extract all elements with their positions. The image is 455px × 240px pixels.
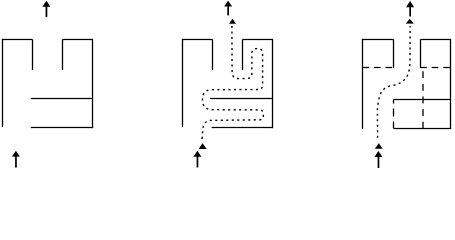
- maze 1 top wall left segment: [2, 39, 33, 41]
- maze 3 left wall: [362, 39, 364, 129]
- maze 2 entry arrow (bottom): [193, 151, 201, 157]
- maze 3 dotted path entry arrowhead: [375, 143, 383, 149]
- maze 1 left wall: [2, 39, 4, 127]
- maze 1 bottom wall: [31, 127, 93, 129]
- maze 3 dashed middle vertical wall: [422, 71, 424, 128]
- maze 1 middle shelf wall: [31, 98, 93, 100]
- maze 3 lower box bottom wall: [394, 128, 452, 130]
- maze 2 dotted path entry arrowhead: [199, 143, 207, 149]
- maze 2 top wall right segment: [243, 39, 273, 41]
- maze 3 top-left box dashed bottom wall: [363, 67, 394, 69]
- maze 1 right wall: [92, 39, 94, 128]
- maze 2 right wall: [272, 39, 274, 128]
- maze 3 top-left box right wall: [393, 40, 395, 68]
- maze 3 lower box top wall: [394, 99, 451, 101]
- maze 1 top wall right segment: [63, 39, 93, 41]
- maze 3 lower box dashed left wall: [393, 100, 395, 129]
- maze 2 exit arrow (top): [224, 1, 232, 7]
- maze 2 inner vertical wall left: [212, 40, 214, 71]
- maze 3 top-right box left wall: [420, 40, 422, 68]
- maze 3 top-right box dashed bottom wall: [420, 67, 450, 69]
- maze 3 exit arrow (top): [406, 1, 414, 7]
- maze 3 right wall: [450, 39, 452, 129]
- maze 2 dotted solution path: [202, 25, 263, 139]
- maze 2 top wall left segment: [182, 39, 213, 41]
- maze 1 exit arrow (top): [42, 1, 50, 7]
- maze 2 left wall: [182, 39, 184, 127]
- maze 2 bottom wall: [212, 127, 274, 129]
- maze 3 dotted path exit arrowhead: [406, 19, 414, 24]
- maze 1 entry arrow (bottom): [12, 151, 20, 157]
- maze 2 middle shelf wall: [210, 98, 273, 100]
- maze 3 dotted solution path: [377, 26, 410, 138]
- maze 1 inner vertical wall right: [62, 40, 64, 71]
- maze 2 inner vertical wall right: [242, 40, 244, 71]
- maze 3 top-left box top wall: [362, 39, 394, 41]
- maze 3 top-right box top wall: [421, 39, 451, 41]
- maze 3 entry arrow (bottom): [374, 151, 382, 157]
- maze 1 inner vertical wall left: [32, 40, 34, 71]
- maze 2 dotted path exit arrowhead: [229, 19, 236, 24]
